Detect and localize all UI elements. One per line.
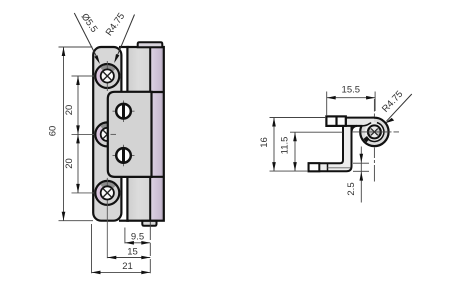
leader R4.75 front — [104, 11, 135, 63]
dimension 20 lower — [64, 134, 80, 193]
centerline top hole — [72, 75, 122, 77]
extension line top of 60 — [59, 46, 93, 48]
leader R4.75 side — [380, 89, 412, 124]
extension line pin center dashed — [149, 222, 151, 273]
extension lines 2.5 — [353, 162, 369, 164]
barrel curl outer — [360, 118, 388, 146]
centerline bottom hole — [72, 192, 122, 194]
mating leaf edge section bottom — [309, 163, 351, 171]
left leaf plate — [93, 47, 121, 221]
svg-text:15.5: 15.5 — [342, 85, 361, 96]
extension line leaf edge for 21 — [91, 224, 93, 273]
svg-text:Ø5.5: Ø5.5 — [79, 11, 100, 34]
hinge barrel column — [127, 47, 163, 221]
svg-text:16: 16 — [259, 137, 270, 148]
svg-text:2.5: 2.5 — [346, 182, 357, 195]
svg-text:20: 20 — [64, 105, 75, 116]
svg-text:9.5: 9.5 — [131, 231, 144, 242]
extension line 16/11.5 bottom — [270, 170, 309, 172]
centerline middle hole — [72, 133, 107, 135]
dimension 2.5 — [346, 147, 363, 203]
svg-text:R4.75: R4.75 — [380, 89, 405, 115]
side leaf bracket (vertical web + foot) — [309, 118, 352, 171]
extension line 16 top — [270, 117, 327, 119]
pin vertical centerline — [373, 99, 375, 182]
svg-text:60: 60 — [48, 126, 59, 137]
middle hole centerline dash over second leaf — [111, 133, 117, 135]
bottom edge across slot — [119, 220, 129, 222]
leader diameter 5.5 — [74, 11, 100, 64]
extension line 11.5 top — [290, 131, 343, 133]
pin cap top — [138, 42, 163, 47]
second leaf plate — [108, 92, 152, 177]
pin horizontal centerline — [352, 131, 399, 133]
dimension 15.5 — [327, 85, 375, 116]
countersunk hole top — [95, 61, 119, 91]
dimension 60 — [48, 47, 66, 221]
extension line bottom hole center for 15 — [106, 208, 108, 258]
screw hole lower on second leaf — [113, 145, 135, 167]
top strip of side leaf — [346, 118, 374, 126]
screw hole upper on second leaf — [113, 101, 135, 123]
knuckle seam upper — [127, 91, 163, 93]
mating leaf edge section top — [326, 116, 345, 126]
dimension 9.5 — [125, 231, 150, 244]
dimension 21 — [92, 261, 151, 274]
svg-text:21: 21 — [122, 261, 133, 272]
curl inner bore — [363, 122, 385, 141]
extension line bottom of 60 — [59, 220, 94, 222]
countersunk hole bottom — [95, 178, 119, 208]
svg-text:15: 15 — [127, 247, 138, 258]
extension line hole center for 9.5 — [124, 228, 126, 244]
svg-text:11.5: 11.5 — [280, 137, 291, 155]
inner corner radius strip to web — [352, 126, 357, 131]
countersunk hole middle — [95, 122, 119, 146]
svg-text:20: 20 — [64, 158, 75, 169]
knuckle seam lower — [127, 176, 163, 178]
dimension 15 — [107, 247, 150, 260]
curl end cap — [364, 137, 369, 142]
dimension 16 — [259, 118, 276, 172]
hinge pin section — [368, 125, 381, 138]
svg-text:R4.75: R4.75 — [104, 11, 128, 38]
pin tail bottom — [142, 221, 156, 226]
top edge across slot — [119, 46, 129, 48]
dimension 20 upper — [64, 76, 80, 134]
dimension 11.5 — [280, 132, 297, 171]
